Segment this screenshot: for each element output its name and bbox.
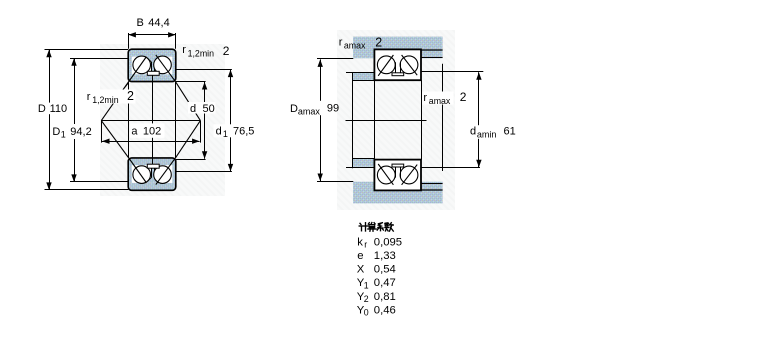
svg-text:r: r [339, 37, 343, 49]
svg-text:B: B [137, 17, 144, 29]
svg-text:amax: amax [298, 107, 321, 117]
svg-text:1,2min: 1,2min [92, 95, 119, 105]
svg-text:102: 102 [143, 126, 161, 138]
svg-text:1,2min: 1,2min [188, 48, 215, 58]
svg-text:0,46: 0,46 [374, 304, 396, 316]
svg-text:1: 1 [61, 130, 66, 140]
svg-text:0,095: 0,095 [374, 236, 402, 248]
svg-text:44,4: 44,4 [148, 17, 169, 29]
svg-text:r: r [364, 239, 367, 249]
svg-text:0: 0 [364, 308, 369, 318]
svg-text:e: e [357, 250, 363, 262]
svg-text:d: d [190, 103, 196, 115]
svg-text:amax: amax [429, 96, 451, 106]
svg-text:1,33: 1,33 [374, 250, 396, 262]
svg-text:amax: amax [344, 40, 366, 50]
svg-text:2: 2 [127, 89, 134, 103]
svg-text:D: D [52, 126, 60, 138]
svg-text:r: r [87, 91, 91, 103]
svg-text:2: 2 [223, 44, 230, 58]
svg-text:D: D [290, 103, 298, 115]
svg-text:0,54: 0,54 [374, 264, 396, 276]
svg-text:r: r [423, 92, 427, 104]
svg-text:94,2: 94,2 [70, 126, 91, 138]
svg-text:k: k [357, 236, 363, 248]
svg-text:1: 1 [364, 280, 369, 290]
svg-text:99: 99 [327, 103, 339, 115]
svg-text:D: D [38, 103, 46, 115]
svg-text:76,5: 76,5 [233, 125, 254, 137]
svg-text:110: 110 [50, 103, 68, 115]
svg-text:0,47: 0,47 [374, 277, 396, 289]
svg-text:a: a [131, 126, 138, 138]
svg-text:0,81: 0,81 [374, 291, 396, 303]
svg-text:amin: amin [477, 129, 497, 139]
svg-text:2: 2 [460, 90, 467, 104]
svg-text:2: 2 [364, 294, 369, 304]
svg-text:1: 1 [223, 129, 228, 139]
svg-text:50: 50 [203, 103, 215, 115]
svg-text:d: d [216, 125, 222, 137]
svg-text:61: 61 [504, 125, 516, 137]
svg-text:X: X [357, 264, 365, 276]
svg-text:2: 2 [375, 36, 382, 50]
svg-text:r: r [182, 44, 186, 56]
svg-text:d: d [470, 125, 476, 137]
